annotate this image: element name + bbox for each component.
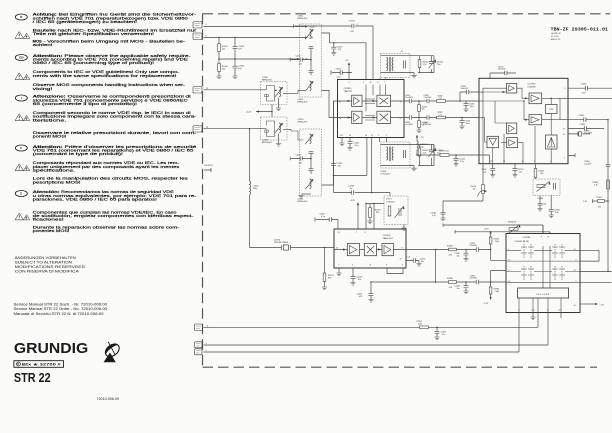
svg-text:13: 13 <box>349 135 351 137</box>
svg-text:9: 9 <box>363 82 364 84</box>
capacitor C2373 <box>357 282 374 302</box>
svg-text:2,2k: 2,2k <box>423 64 427 66</box>
svg-text:DT303-417: DT303-417 <box>381 174 392 176</box>
svg-text:4: 4 <box>402 265 403 267</box>
svg-text:+5V: +5V <box>600 304 604 306</box>
connector BU3 <box>193 87 208 94</box>
STR 22 model name <box>14 371 51 385</box>
svg-text:BF966-905: BF966-905 <box>298 18 309 20</box>
svg-text:ponenti MOS!: ponenti MOS! <box>33 135 67 139</box>
svg-text:pescriptions MOS!: pescriptions MOS! <box>33 180 81 184</box>
capacitor C2133 <box>463 101 474 112</box>
capacitor C2332 pin14 line <box>460 86 479 101</box>
capacitor C2312 <box>331 42 343 55</box>
svg-text:2,2n/100V: 2,2n/100V <box>424 97 433 99</box>
capacitor C2314 <box>331 69 352 79</box>
connector BU5 <box>195 324 209 331</box>
IC2 pin numbers <box>481 88 566 163</box>
svg-text:R2358 56: R2358 56 <box>508 221 516 223</box>
wire IC3 output upper <box>406 249 491 251</box>
series capacitors chain2 <box>309 151 314 174</box>
label C2315 BF966-905 <box>298 99 309 103</box>
capacitor C2327 <box>424 115 433 126</box>
svg-text:/ IEC 65 (gerätebezogen) zu be: / IEC 65 (gerätebezogen) zu beachten! <box>33 20 138 24</box>
resistor R2380 <box>447 278 457 289</box>
svg-text:11: 11 <box>339 101 341 103</box>
svg-text:7: 7 <box>356 232 357 234</box>
svg-text:10: 10 <box>559 310 561 312</box>
svg-text:GRUNDIG: GRUNDIG <box>14 341 88 357</box>
capacitor C2374 pin12 <box>406 257 425 267</box>
svg-text:4,7k: 4,7k <box>594 185 598 187</box>
svg-text:15k: 15k <box>222 69 225 71</box>
title TBN-ZF 29305-011.01 <box>551 28 609 41</box>
wire IF bottom link <box>334 193 391 197</box>
svg-text:470: 470 <box>358 279 361 281</box>
svg-text:4,12: 4,12 <box>340 135 344 137</box>
capacitor C2306 <box>233 59 246 76</box>
svg-text:TBA 120U: TBA 120U <box>383 237 393 240</box>
svg-text:17: 17 <box>490 161 492 163</box>
transistor C2332 mixer dashed box <box>261 117 304 140</box>
capacitor C2142 <box>453 155 465 166</box>
section GB safety notice <box>15 54 191 91</box>
op-amp IC CD2315 TBA229 <box>338 80 405 138</box>
label C2330 BF966-905 <box>262 77 273 81</box>
service manual order numbers <box>14 303 108 316</box>
svg-text:+7V: +7V <box>420 137 424 139</box>
svg-text:D: D <box>17 362 19 366</box>
capacitor C2134 <box>459 118 470 129</box>
label 4,7 <box>401 51 404 53</box>
IC1 multiplier X1 <box>377 95 391 106</box>
wire mixer1 output <box>298 89 305 91</box>
resistor R2147 <box>439 150 449 156</box>
wire bus line 1 <box>204 327 539 329</box>
label -5V <box>310 38 314 40</box>
IC3 pins 3 4 bridge <box>387 268 403 274</box>
capacitor C2317 stub <box>290 55 312 65</box>
resistor R2367 <box>583 197 609 209</box>
schematic dashed border <box>203 14 611 367</box>
svg-text:100k: 100k <box>495 241 499 243</box>
svg-text:2,2k: 2,2k <box>439 98 442 100</box>
IC2 output amp A7 <box>546 135 558 149</box>
potentiometer R2150 <box>443 164 487 213</box>
IC3 amplifier A1 <box>347 244 359 256</box>
capacitor C2143 <box>431 212 446 220</box>
svg-text:CD4052 (MOS): CD4052 (MOS) <box>515 241 530 243</box>
svg-text:2: 2 <box>550 161 551 163</box>
connector BU4 <box>193 126 208 133</box>
transistor chain2 dashed column <box>300 129 322 196</box>
resistor R2384 <box>484 282 500 305</box>
capacitor C2354 <box>537 196 546 212</box>
svg-text:spécifications.: spécifications. <box>33 168 76 172</box>
wire IC4 right outputs <box>580 250 612 282</box>
svg-text:+12V: +12V <box>246 112 252 114</box>
IC1 pin4/12 ground <box>339 138 344 146</box>
svg-text:+7V: +7V <box>345 60 349 62</box>
alteration notice block <box>15 256 86 273</box>
connector BU1 <box>193 22 207 29</box>
IC1 amplifier A <box>352 95 362 106</box>
inductor DR2140 <box>417 141 429 155</box>
section D safety notice <box>15 13 198 47</box>
IC3 amplifier A2 <box>382 244 393 256</box>
wire mux control 1 <box>443 223 543 233</box>
svg-text:DECODER: DECODER <box>536 294 550 296</box>
svg-text:nents with the same specificat: nents with the same specifications for r… <box>33 74 177 78</box>
F2310 rails <box>381 56 435 73</box>
terminal 1/6/12/14 <box>204 165 214 172</box>
ground mixer2 <box>276 134 281 147</box>
capacitor C2322 <box>347 138 360 151</box>
svg-text:I: I <box>21 96 22 100</box>
resistor R2354 <box>534 164 544 179</box>
svg-text:10n: 10n <box>457 255 460 257</box>
wire signal row2 <box>404 117 479 119</box>
IC3 pin1 ground <box>336 268 341 276</box>
label +7V <box>345 60 349 62</box>
IC4 switch cluster D <box>552 266 565 280</box>
wire oscillator input 1 <box>204 89 263 91</box>
resistor R2301 <box>218 38 229 60</box>
svg-text:BF966-905: BF966-905 <box>298 101 309 103</box>
bandfilter F2310 dashed box <box>381 54 411 78</box>
label +7V choke <box>416 135 424 142</box>
svg-text:R2367: R2367 <box>597 197 602 199</box>
svg-text:22k: 22k <box>422 125 425 127</box>
bus right edge <box>607 119 609 272</box>
svg-text:TC7 100V: TC7 100V <box>584 133 593 135</box>
svg-text:achten!: achten! <box>33 43 53 47</box>
capacitor C2381 <box>470 243 479 252</box>
op-amp IC CD2370 TBA120 <box>334 229 406 268</box>
svg-text:10: 10 <box>370 82 372 84</box>
svg-text:10n: 10n <box>519 171 522 173</box>
svg-text:6: 6 <box>349 82 350 84</box>
wire IC4 pin6 down <box>518 312 520 352</box>
IC2 amplifier A4 <box>507 123 517 134</box>
svg-text:C2360: C2360 <box>581 84 588 86</box>
wire into IC1 pin8 top <box>372 26 374 80</box>
wire mux control 2 <box>455 230 550 234</box>
svg-text:E: E <box>20 192 22 196</box>
IC3 multiplier X <box>364 244 376 256</box>
svg-text:470: 470 <box>359 296 362 298</box>
svg-text:12: 12 <box>400 258 402 260</box>
svg-text:F1 VORL: F1 VORL <box>551 36 559 38</box>
capacitor C2363 pin10 <box>568 130 593 136</box>
capacitor C2307 stub <box>290 154 312 164</box>
section F safety notice <box>15 145 197 184</box>
ground F2371 <box>401 225 406 231</box>
svg-text:100n: 100n <box>466 123 470 125</box>
svg-text:7,5V: 7,5V <box>582 93 587 95</box>
svg-text:C2307: C2307 <box>296 154 303 156</box>
wire +12V to IC3 <box>357 202 359 229</box>
svg-text:2,2n/100V: 2,2n/100V <box>405 97 414 99</box>
document number 72010-006.09 <box>97 397 120 401</box>
IC4 decoder block <box>518 288 569 298</box>
svg-text:BF966-905: BF966-905 <box>262 142 273 144</box>
svg-text:330: 330 <box>598 207 601 209</box>
capacitor C2313 series <box>349 20 358 32</box>
F2310 capacitor <box>404 61 406 69</box>
wire IC2 pin1 stub <box>568 154 575 158</box>
F2318 capacitor <box>404 150 406 158</box>
label C2311 BF966-905 <box>298 15 309 19</box>
wire IC4 pin16 +5V <box>580 303 604 306</box>
wire bus line 3 <box>204 351 520 353</box>
svg-text:100n/15V: 100n/15V <box>461 88 469 90</box>
IC4 pin numbers <box>508 236 577 311</box>
capacitor C2326 <box>424 95 433 103</box>
wire chain1 top rail <box>294 24 373 28</box>
svg-text:22n: 22n <box>421 261 424 263</box>
svg-text:1/6/12/14: 1/6/12/14 <box>204 165 214 167</box>
svg-text:13n: 13n <box>299 163 302 165</box>
IC4 switch cluster A <box>521 244 534 258</box>
svg-text:2,2µ/63V: 2,2µ/63V <box>584 163 592 165</box>
svg-text:MODIFICATIONS RESERVEES: MODIFICATIONS RESERVEES <box>15 265 86 269</box>
svg-text:16: 16 <box>574 305 576 307</box>
stub IC4 pin 13 <box>560 312 562 318</box>
IC2 amplifier A1 <box>507 83 517 93</box>
GRUNDIG logo <box>14 341 88 357</box>
label +12V mixer feed <box>246 112 252 114</box>
resistor R2323 <box>437 95 446 102</box>
resistor R2390 <box>447 246 457 257</box>
wire bus line 2 <box>204 344 549 346</box>
svg-text:DT303-417: DT303-417 <box>386 201 395 203</box>
crystal Q2336 <box>274 240 291 250</box>
wire chain1 output to IC1 pin14 <box>322 90 338 117</box>
wire chain1 mid tap <box>322 33 367 80</box>
resistor R2364 <box>593 180 610 189</box>
svg-text:5: 5 <box>565 88 566 90</box>
svg-text:3,3k: 3,3k <box>449 287 453 289</box>
transistor chain1 lower mosfet <box>305 81 313 91</box>
ground below C2306 <box>232 76 237 79</box>
bandfilter F2318 dashed box <box>381 142 411 168</box>
F2318 rails <box>381 145 435 166</box>
wire IC2 pin7 to bus <box>568 115 608 122</box>
F2318 transformer <box>387 147 394 162</box>
svg-text:2,2k: 2,2k <box>439 114 442 116</box>
IC4 switch cluster C <box>552 244 565 258</box>
wire IC3 output lower <box>370 281 506 283</box>
wire +12V rail <box>204 25 309 27</box>
svg-text:14: 14 <box>339 118 341 120</box>
svg-text:820: 820 <box>376 212 379 214</box>
satellite dish icon <box>101 338 122 362</box>
svg-text:12: 12 <box>563 128 565 130</box>
svg-text:6: 6 <box>400 118 401 120</box>
svg-text:13n: 13n <box>299 64 302 66</box>
ground IC4 pin7 <box>530 312 535 319</box>
svg-text:C2362: C2362 <box>580 124 586 126</box>
wire +7V to IC1 pin6 <box>348 62 350 80</box>
svg-text:+2,9V: +2,9V <box>484 228 490 230</box>
wire F2310 to IC1 pins <box>380 78 386 80</box>
inductor L2336 <box>250 129 260 248</box>
svg-text:2: 2 <box>386 135 387 137</box>
svg-text:ficaciones!: ficaciones! <box>33 218 64 222</box>
connector BU6 <box>195 342 207 348</box>
wire IC1 pins 1 2 to filter <box>380 138 387 143</box>
capacitor C2364 <box>584 161 610 166</box>
label C2332 BF966-905 <box>262 140 273 144</box>
svg-text:BF966-905: BF966-905 <box>298 121 309 123</box>
svg-text:R2390: R2390 <box>447 246 453 248</box>
IC2 amplifier A3 <box>529 115 542 125</box>
IC2 internal wires <box>479 88 568 164</box>
IC1 pin numbers <box>339 82 401 137</box>
svg-text:CD2350: CD2350 <box>528 84 537 86</box>
svg-text:3: 3 <box>541 236 542 238</box>
svg-text:65 (concernente il tipo di pro: 65 (concernente il tipo di prodotto)! <box>33 102 138 106</box>
svg-text:15: 15 <box>371 135 373 137</box>
transistor chain1 dashed column <box>300 24 322 97</box>
svg-text:Teile mit gleicher Spezifikati: Teile mit gleicher Spezifikation verwend… <box>33 32 155 36</box>
capacitor C2377 <box>315 214 338 230</box>
svg-text:SUBJECT TO ALTERATION: SUBJECT TO ALTERATION <box>15 261 73 265</box>
svg-text:C2361: C2361 <box>579 115 585 117</box>
wire IC1 pins 16 15 down <box>333 138 373 194</box>
wire chain2 output to IC1 pin11 <box>322 101 338 185</box>
svg-text:10n: 10n <box>457 288 460 290</box>
svg-text:220n/63V: 220n/63V <box>470 245 478 247</box>
IC4 top pin wires <box>543 225 550 234</box>
IC1 multiplier X2 <box>377 111 391 123</box>
svg-text:F: F <box>20 146 22 150</box>
capacitor C2382 <box>455 250 469 262</box>
label +12V <box>310 27 316 29</box>
svg-text:+12V: +12V <box>310 27 316 29</box>
svg-text:Manuale di Servizio STR 22 N.: Manuale di Servizio STR 22 N. di 72010-0… <box>14 312 104 316</box>
svg-text:BF966-905: BF966-905 <box>298 201 309 203</box>
wire pin12 branch <box>491 250 506 261</box>
Btx number box <box>14 361 64 368</box>
svg-text:C2313: C2313 <box>349 20 356 22</box>
capacitor C2372 <box>350 268 362 285</box>
svg-text:0860 / IEC 65 (concerning type: 0860 / IEC 65 (concerning type of produc… <box>33 61 155 65</box>
connector BU2 <box>193 33 207 40</box>
resistor R2373 <box>367 204 380 224</box>
resistor R2326 <box>416 118 426 133</box>
svg-text:CD2370: CD2370 <box>383 235 392 237</box>
capacitor C2329 <box>331 101 343 193</box>
svg-text:COINL: COINL <box>549 109 554 111</box>
capacitor C2360 <box>581 84 588 95</box>
svg-text:100k: 100k <box>495 291 499 293</box>
IC2 COINL block <box>546 105 558 114</box>
svg-text:8: 8 <box>357 24 358 26</box>
svg-text:ABB ZF F1: ABB ZF F1 <box>551 38 560 41</box>
svg-text:50: 50 <box>473 188 475 190</box>
svg-text:13: 13 <box>338 232 340 234</box>
wire -5V rail <box>204 36 309 38</box>
label F2318 DT303-417 <box>381 171 392 176</box>
wire IC2 pin6 output <box>568 97 612 99</box>
svg-text:R2147 2,2k: R2147 2,2k <box>439 150 449 152</box>
wire IC4 pin9 down <box>547 312 549 345</box>
capacitor C2305 <box>233 38 246 60</box>
capacitor C2318 series <box>348 186 355 195</box>
bandfilter F2371 dashed box <box>384 196 408 225</box>
wire IC2 pin5 output <box>568 87 612 89</box>
svg-text:22k: 22k <box>422 109 425 111</box>
svg-text:7: 7 <box>206 24 207 26</box>
wire oscillator input 2 <box>204 128 263 130</box>
F2371 internals <box>388 206 404 218</box>
svg-text:SPECIAL TRACE: SPECIAL TRACE <box>274 241 289 244</box>
F2310 transformer <box>387 57 394 72</box>
wire signal row1 <box>404 100 479 102</box>
ground F2318 <box>411 166 416 171</box>
svg-text:CD2380: CD2380 <box>523 237 531 239</box>
wire crystal line <box>250 247 335 249</box>
svg-text:R2380: R2380 <box>447 278 453 280</box>
svg-text:GRUND ZF: GRUND ZF <box>551 33 562 35</box>
svg-text:+1,8: +1,8 <box>407 257 411 259</box>
svg-text:3,3k: 3,3k <box>449 254 453 256</box>
svg-text:100n/15V: 100n/15V <box>498 69 506 71</box>
wire IC3 pins to F2371 <box>365 203 384 229</box>
svg-text:STR 22: STR 22 <box>14 371 51 385</box>
svg-text:F2371: F2371 <box>386 199 391 201</box>
capacitor C2384 <box>455 282 469 294</box>
resistor R2327 <box>437 112 446 119</box>
IC4 internal wires <box>506 246 580 288</box>
resistor R2302 <box>218 59 229 76</box>
capacitor C2358 <box>549 196 560 218</box>
IC4 decoder pins down <box>519 298 561 312</box>
svg-text:9: 9 <box>365 232 366 234</box>
resistor R2318 <box>418 145 429 166</box>
svg-text:3: 3 <box>386 265 387 267</box>
resistor R2382 <box>484 228 500 249</box>
svg-text:tteristiche.: tteristiche. <box>33 118 67 122</box>
svg-text:1: 1 <box>339 265 340 267</box>
svg-text:CON RISERVA DI MODIFICA: CON RISERVA DI MODIFICA <box>15 270 80 274</box>
wire pin4 branch <box>491 271 506 282</box>
svg-text:100: 100 <box>543 204 546 206</box>
transistor C2330 mixer dashed box <box>261 82 299 105</box>
multiplexer IC CD2380 CD4052 <box>506 234 580 313</box>
ground mixer1 <box>276 98 281 111</box>
svg-text:paraciones, VDE 0860 / IEC 65: paraciones, VDE 0860 / IEC 65 para apara… <box>33 198 157 202</box>
trimmer network dashed box <box>533 179 560 200</box>
svg-text:100: 100 <box>540 173 543 175</box>
svg-text:CD2315: CD2315 <box>344 88 353 90</box>
svg-text:(concernant le type de produit: (concernant le type de produit)! <box>33 152 123 156</box>
svg-text:13: 13 <box>547 236 549 238</box>
svg-text:8: 8 <box>378 82 379 84</box>
capacitor C2320 <box>405 95 414 103</box>
svg-text:3: 3 <box>400 101 401 103</box>
label C2302 BF966-905 <box>298 119 309 123</box>
svg-text:Service Manual STR 22 Order -: Service Manual STR 22 Order - No. 72010-… <box>14 307 108 311</box>
capacitor C2130 top stub <box>490 66 516 78</box>
trim capacitor C2319 <box>429 145 444 166</box>
svg-text:15k: 15k <box>222 49 225 51</box>
svg-text:72010-006.09: 72010-006.09 <box>97 397 120 401</box>
svg-text:BF966-905: BF966-905 <box>262 80 273 82</box>
svg-text:C2317: C2317 <box>296 55 303 57</box>
